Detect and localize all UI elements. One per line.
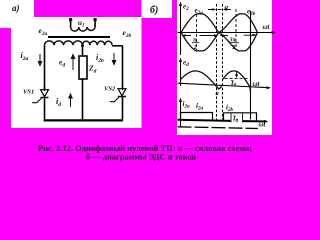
wire: bottom bus	[44, 119, 123, 121]
svg-text:2: 2	[232, 45, 235, 51]
wire: secondary right end to right rail	[112, 45, 123, 47]
svg-text:ωt: ωt	[259, 121, 267, 129]
fraction 3pi/2 label	[229, 38, 240, 52]
firing angle alpha dimension arrows	[208, 8, 231, 11]
transformer T primary leads	[71, 21, 96, 27]
svg-text:Рис. 2.12. Однофазный нулевой: Рис. 2.12. Однофазный нулевой ТП: а — си…	[38, 143, 252, 153]
thyristor VS2	[110, 85, 126, 121]
white label box b	[142, 0, 173, 18]
label id with arrow	[56, 94, 72, 108]
thyristor VS1	[32, 86, 48, 121]
magenta slide background	[0, 0, 278, 171]
dashed line at peak pi/2	[196, 14, 198, 50]
transformer T secondary winding	[45, 41, 113, 45]
label i2b with arrow	[96, 53, 116, 65]
transformer T primary terminal dots	[69, 18, 97, 21]
wire: load to bottom bus	[82, 79, 84, 121]
dashed base line below plot3	[178, 127, 259, 129]
dashed line at firing instant	[222, 4, 224, 120]
wire: right rail	[122, 46, 124, 89]
wire: centre tap down to load	[82, 45, 84, 56]
panel b white background	[177, 0, 272, 135]
transformer T primary winding	[71, 27, 96, 31]
curve ed rectified hump 2	[222, 71, 250, 91]
svg-text:2: 2	[194, 45, 197, 51]
plot2 horizontal axis wt	[178, 80, 272, 90]
fraction pi/2 label	[192, 38, 200, 52]
load Zd rectangle	[79, 56, 87, 79]
svg-text:VS1: VS1	[23, 89, 34, 96]
svg-text:б — диаграммы ЭДС и токов: б — диаграммы ЭДС и токов	[86, 153, 196, 162]
curve e2b sinusoid	[181, 14, 258, 51]
plot3 vertical axis i2a	[179, 98, 182, 127]
svg-text:а): а)	[12, 3, 20, 13]
dashed average level Id	[225, 77, 248, 79]
plot1 horizontal axis wt	[178, 23, 277, 34]
label Ia box	[231, 113, 243, 124]
svg-text:α: α	[225, 4, 229, 12]
vertical marker line at 2pi	[250, 11, 252, 120]
dimension arrows 3pi/2 in right lobe	[220, 34, 257, 37]
wire: left rail	[44, 45, 46, 90]
curve ed rectified hump 1	[181, 71, 223, 89]
current pulse i2b	[224, 113, 257, 121]
label i2a with arrow	[21, 51, 42, 66]
svg-text:ωt: ωt	[263, 23, 271, 31]
current pulse i2a	[181, 113, 213, 121]
svg-text:VS2: VS2	[104, 86, 116, 93]
dashed line at commutation point	[216, 4, 218, 120]
svg-text:ωt: ωt	[253, 80, 261, 88]
dashed line at peak 3pi/2 with arrow to ed peak	[235, 9, 238, 78]
plot3 horizontal axis wt	[178, 120, 269, 129]
panel a white background	[11, 17, 142, 128]
svg-text:б): б)	[150, 5, 158, 16]
label ed with arrow	[59, 55, 75, 71]
curve e2a sinusoid	[181, 14, 258, 51]
dimension arrows pi/2 in left lobe	[182, 34, 219, 37]
white label box a	[0, 0, 34, 28]
node: secondary centre tap	[81, 44, 84, 47]
transformer T core	[48, 36, 110, 38]
plot1 vertical axis e2	[179, 2, 182, 56]
plot2 vertical axis ed	[179, 58, 182, 87]
node: load bottom junction	[81, 119, 84, 122]
